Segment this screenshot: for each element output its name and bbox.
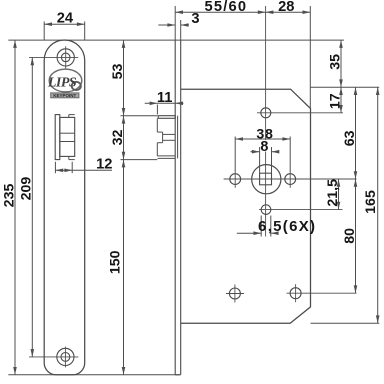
dimension 11 line: [145, 102, 184, 104]
dimension 55/60 line: [175, 11, 265, 13]
top case hole: [261, 108, 271, 118]
svg-text:17: 17: [327, 93, 343, 109]
dimension 8 line: [251, 151, 260, 153]
backset centerline upper: [265, 6, 267, 140]
bottom left case hole: [229, 288, 240, 299]
dimension 165 line: [377, 87, 379, 323]
latch top extension line: [121, 115, 158, 117]
lower center hole 6.5mm: [261, 205, 271, 215]
spindle square 8mm: [260, 173, 272, 185]
svg-text:6,5(6X): 6,5(6X): [258, 218, 316, 235]
dimension 235 line: [14, 40, 16, 375]
dimension 3 extension case front: [180, 20, 182, 40]
latch bolt front view: [55, 115, 60, 160]
svg-text:35: 35: [327, 54, 343, 70]
dimension 28 line: [266, 11, 311, 13]
svg-text:55/60: 55/60: [205, 0, 248, 15]
case top extension line: [311, 86, 380, 88]
dimension 55/60 extension left: [174, 6, 176, 40]
dimension 12 extension lines: [54, 162, 56, 173]
svg-text:KEYPOINT: KEYPOINT: [53, 93, 76, 98]
follower hub circle: [252, 165, 281, 194]
backset centerline lower: [265, 152, 267, 237]
dimension 32 line: [122, 116, 126, 124]
right case hole: [285, 174, 296, 185]
dimension 209 line: [31, 57, 33, 357]
lower center hole centerline: [259, 209, 343, 211]
bottom right case hole: [290, 288, 301, 299]
case bottom extension line: [311, 322, 380, 324]
svg-text:21,5: 21,5: [325, 179, 341, 207]
svg-text:63: 63: [342, 130, 358, 146]
svg-text:28: 28: [278, 0, 294, 15]
svg-text:165: 165: [363, 190, 379, 214]
dimension 63 line: [355, 87, 357, 179]
strip back edge at latch: [177, 116, 179, 159]
dimension 11 extension line: [156, 105, 158, 115]
svg-text:150: 150: [107, 250, 123, 274]
svg-text:8: 8: [260, 139, 268, 155]
svg-text:11: 11: [157, 90, 173, 106]
svg-text:24: 24: [57, 11, 74, 27]
svg-text:12: 12: [96, 156, 112, 172]
lock case outline: [181, 89, 311, 323]
dimension 6.5 line: [237, 232, 261, 234]
brand logo banner: [51, 93, 79, 98]
top hole centerline: [257, 112, 343, 114]
left case hole: [230, 174, 241, 185]
svg-text:3: 3: [191, 11, 199, 27]
top screw hole: [57, 49, 74, 66]
bottom screw hole: [57, 348, 74, 365]
svg-text:LIPS: LIPS: [47, 76, 77, 91]
dimension 3 line: [158, 24, 175, 26]
svg-text:235: 235: [2, 184, 18, 208]
faceplate side view strip: [174, 40, 176, 375]
top extension line: [8, 39, 344, 41]
dimension 24 line: [44, 23, 84, 25]
dimension 17 line: [340, 87, 342, 113]
dimension 53 line: [123, 40, 125, 116]
svg-text:80: 80: [342, 228, 358, 244]
dimension 12 line: [55, 169, 112, 171]
dimension 28 extension right: [309, 6, 311, 109]
dimension 80 line: [355, 179, 357, 293]
follower horizontal centerline: [224, 178, 357, 180]
svg-text:53: 53: [110, 64, 126, 80]
dimension 150 line: [123, 116, 125, 375]
dimension 6.5 extension lines: [260, 216, 262, 237]
svg-text:209: 209: [19, 177, 35, 201]
latch bolt side view: [158, 116, 175, 119]
dimension 21.5 line: [338, 179, 340, 210]
latch bottom extension line: [121, 159, 158, 161]
dimension 38 extension lines: [234, 137, 236, 172]
dimension 24 extension lines: [43, 22, 45, 41]
brand logo oval: [49, 69, 82, 92]
dimension 235 bottom extension: [8, 374, 179, 376]
dimension 35 line: [340, 40, 342, 87]
faceplate front view outline: [44, 40, 85, 375]
dimension 38 line: [235, 138, 290, 140]
dimension 8 extension lines: [259, 147, 261, 173]
